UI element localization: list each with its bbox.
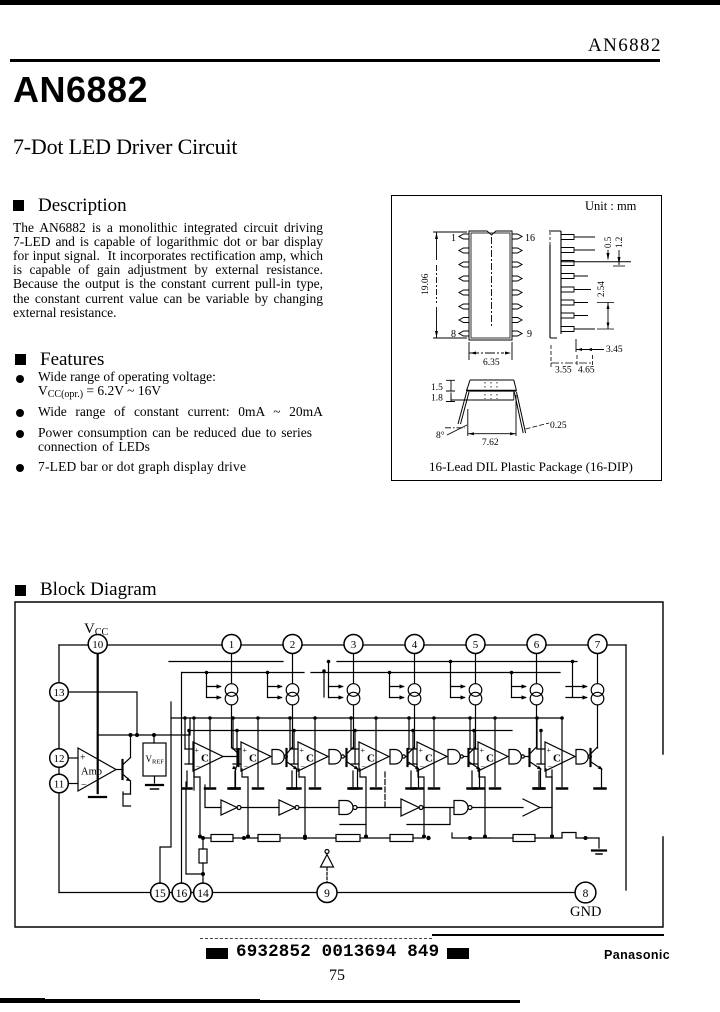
input ground stub [352,771,354,787]
mirror control arrows [207,687,221,698]
svg-text:4.65: 4.65 [578,366,595,376]
logic gate stage 7 [576,750,588,765]
top black bar [0,0,720,5]
LED driver stage 3 [288,655,362,839]
input ground stub [291,771,293,787]
divider tap wire [299,769,305,836]
resistor R4 [390,835,413,842]
ground under VREF [154,776,156,783]
svg-text:−: − [301,762,306,771]
svg-text:−: − [362,762,367,771]
svg-text:3: 3 [351,639,357,651]
svg-text:7.62: 7.62 [482,438,499,448]
Features bullets [16,375,24,383]
wire mirror to collector [536,705,538,748]
pin 16 [172,883,191,902]
wire mirror to collector [292,705,294,748]
svg-text:C: C [306,753,314,765]
wire gate to transistor [344,756,346,758]
comparator input wires [290,749,298,764]
op-amp Amp [78,748,116,791]
bias wire and ground [433,718,435,787]
output transistor Q4 [406,749,408,766]
wire bus feed [206,673,208,698]
svg-text:C: C [201,753,209,765]
LED driver stage 2 [231,655,301,839]
wire pin11 to amp - input [69,783,79,785]
wire pin12 to amp + input [69,757,79,759]
emitter ground [412,787,423,790]
header doc number AN6882 [588,35,662,57]
resistor R2 [258,835,280,842]
19.06 dimension [433,232,467,338]
divider tap wire [194,769,200,836]
inverter A4 [401,799,419,816]
comparator C1 [193,742,223,771]
wire bus feed [389,673,391,698]
svg-text:−: − [481,762,486,771]
2.54 dim [607,303,609,330]
wire pin 2 to mirror [292,655,294,684]
internal vcc rail [98,718,190,735]
pin 4 [405,635,424,654]
svg-text:C: C [425,753,433,765]
logic gate stage 4 [390,750,402,765]
emitter ground [290,787,301,790]
wire comparator to transistor [223,756,239,758]
svg-text:1: 1 [451,233,456,244]
svg-text:C: C [553,753,561,765]
wire gate to transistor [524,756,529,758]
svg-text:+: + [243,746,248,755]
pin 6 [527,635,546,654]
0.5 / 1.2 dims [561,261,631,263]
bias wire and ground [314,718,316,787]
wire mirror to collector [414,705,416,748]
emitter ground [473,787,484,790]
footer code line [206,948,228,959]
mirror control arrows [566,687,587,698]
svg-text:1: 1 [229,639,235,651]
output transistor Q1 [237,749,239,766]
divider tap wire [418,769,424,836]
wire [540,807,552,809]
svg-text:0.5: 0.5 [603,236,613,248]
inverter row wire [205,785,221,808]
wire gate to transistor [463,756,468,758]
comparator C4 [359,742,389,771]
DIP top-view body [469,231,512,340]
wire pin 6 to mirror [536,655,538,684]
bottom bar [0,998,45,1003]
resistor R14 above pin 14 [199,849,207,863]
top bus line B [182,672,560,674]
pin 5 [466,635,485,654]
wire mirror to collector [475,705,477,748]
divider tap wire [479,769,485,836]
svg-text:2.54: 2.54 [596,281,606,297]
svg-text:12: 12 [54,753,65,765]
3.45 dim [575,339,577,352]
footer rule + Panasonic [200,938,432,939]
resistor R1 [211,835,233,842]
Description heading [13,200,24,211]
svg-text:Amp: Amp [81,767,102,778]
DIP left pins [459,234,469,336]
svg-text:14: 14 [197,888,209,900]
comparator C2 [241,742,271,771]
wire bus feed [511,673,513,698]
wire jog [452,833,489,838]
svg-text:+: + [361,746,366,755]
transistor Q1 after amp [116,769,123,771]
svg-text:13: 13 [54,687,66,699]
pin 10 [88,635,107,654]
emitter ground [229,787,240,790]
stub node on bus [323,671,325,697]
wire [413,837,424,839]
comparator input wires [409,749,417,764]
current mirror M7 [591,684,604,697]
inverter A2 [279,800,295,815]
logic gate stage 2 [272,750,284,765]
nand gate A5 [454,801,468,815]
comparator C5 [417,742,447,771]
bias wire and ground [494,718,496,787]
package drawing SVG [391,195,660,479]
comparator C7 [545,742,575,771]
svg-text:6: 6 [534,639,540,651]
output transistor Q6 [528,749,530,766]
current mirror M4 [408,684,421,697]
input ground stub [186,771,188,787]
signal rail D [189,730,512,732]
comparator input wires [470,749,478,764]
pin 3 [344,635,363,654]
junction dots on vcc rail [135,733,139,737]
pin 2 [283,635,302,654]
input ground stub [234,771,236,787]
svg-text:4: 4 [412,639,418,651]
pin 8 [575,882,596,903]
input ground stub [410,771,412,787]
pin 1 [222,635,241,654]
pin 11 [50,774,69,793]
svg-text:−: − [196,762,201,771]
svg-text:0.25: 0.25 [550,421,567,431]
wire stage4 to inverter A4 [384,772,386,808]
pin number labels [451,233,535,340]
subtitle [13,134,237,160]
resistor bracket under Q1 [123,792,131,806]
logic gate stage 3 [329,750,341,765]
logic gate stage 6 [509,750,521,765]
wire bus feed [328,662,330,698]
current mirror M3 [347,684,360,697]
DIP right pins [512,234,522,336]
wire gate to transistor [405,756,407,758]
8 deg leader [445,427,465,429]
Block Diagram heading [15,585,26,596]
LED driver stage 6 [468,655,545,839]
svg-text:2: 2 [290,639,296,651]
emitter ground [351,787,362,790]
svg-text:19.06: 19.06 [421,273,431,295]
svg-text:+: + [480,746,485,755]
wire pin 5 to mirror [475,655,477,684]
resistor R3 [336,835,360,842]
pin 13 [50,683,69,702]
step wires [340,808,450,825]
svg-text:3.45: 3.45 [606,345,623,355]
svg-text:1.2: 1.2 [614,237,624,248]
wire pin10 vcc column [97,655,99,794]
bias wire and ground [257,718,259,787]
bias wire and ground [209,718,211,787]
resistor R5 [513,835,535,842]
emitter ground [595,787,606,790]
svg-text:GND: GND [570,904,601,920]
package caption [429,459,633,475]
top supply bus wire [59,644,626,646]
nand gate A3 [339,801,353,815]
pin 14 [194,883,213,902]
svg-text:VREF: VREF [146,754,165,766]
comparator input wires [351,749,359,764]
wire to chain [551,770,553,837]
wire [280,837,336,839]
comparator input wires [233,749,241,764]
block diagram [0,595,720,935]
voltage reference VREF box [153,735,155,743]
wire [423,807,454,809]
left long wires to bottom pins [160,702,171,883]
page number [329,967,345,985]
comparator C6 [478,742,508,771]
legs [458,392,469,424]
current mirror M1 [225,684,238,697]
wire [357,807,401,809]
buffer A6 [523,799,540,816]
svg-text:+: + [547,746,552,755]
wire pin 4 to mirror [414,655,416,684]
left rail wire from pin 10 down through 13,12,11 [58,645,60,893]
wire [203,837,211,839]
ground at chain end [598,838,600,848]
wire [535,837,552,839]
wire [241,807,279,809]
wire mirror to collector [353,705,355,748]
wire pin7 output drop [625,645,627,890]
pin 12 [50,749,69,768]
inverter A1 [221,800,237,815]
resistor chain [201,836,205,840]
logic gate stage 5 [448,750,460,765]
bias wire and ground [561,718,563,787]
side view pins [561,235,595,332]
current mirror M2 [286,684,299,697]
svg-text:16: 16 [525,233,535,244]
svg-text:8: 8 [583,888,589,900]
DIP centerline [491,237,493,327]
wire bus feed [450,662,452,698]
divider tap wire [546,769,552,836]
svg-text:11: 11 [54,779,65,791]
package outline box [391,195,662,481]
big title AN6882 [13,69,148,111]
mirror control arrows [329,687,343,698]
current mirror M6 [530,684,543,697]
comparator C3 [298,742,328,771]
current mirror M5 [469,684,482,697]
pin 15 [151,883,170,902]
ground under vcc column [89,796,106,798]
output transistor Q5 [467,749,469,766]
wire [472,807,523,809]
svg-text:16: 16 [176,888,188,900]
comparator input wires [185,749,193,764]
svg-text:+: + [419,746,424,755]
svg-text:C: C [486,753,494,765]
signal rail C [171,717,560,719]
svg-text:1.5: 1.5 [431,383,443,393]
output transistor Q7 [589,749,591,766]
bottom ground wire [59,892,575,894]
divider tap wire [242,769,248,836]
bias wire and ground [375,718,377,787]
svg-text:1.8: 1.8 [431,394,443,404]
svg-text:−: − [420,762,425,771]
reference symbol above pin 9 [325,850,329,854]
svg-text:10: 10 [92,639,104,651]
comparator input wires [537,749,545,764]
LED driver stage 5 [407,655,484,839]
Description body [13,221,323,320]
pin 9 [317,883,337,903]
top bus line A [169,661,577,663]
wire [489,837,513,839]
wire bus feed [572,662,574,698]
emitter ground [534,787,545,790]
input ground stub [538,771,540,787]
svg-text:+: + [300,746,305,755]
mirror control arrows [512,687,526,698]
wire mirror to collector [231,705,233,748]
wire bus feed [267,673,269,698]
wire pin13 to vref node [69,692,138,735]
svg-text:15: 15 [154,888,166,900]
svg-text:−: − [81,780,87,791]
wire [299,807,339,809]
svg-text:9: 9 [324,888,330,900]
svg-text:+: + [195,746,200,755]
input ground stub [471,771,473,787]
svg-text:C: C [367,753,375,765]
output transistor Q2 [285,749,287,766]
mirror control arrows [390,687,404,698]
wire [360,837,390,839]
mirror control arrows [451,687,465,698]
svg-text:6.35: 6.35 [483,358,500,368]
wire [233,837,258,839]
bottom profile view [451,380,517,400]
LED driver stage 7 [535,655,606,839]
svg-text:9: 9 [527,329,532,340]
3.55 / 4.65 dims [551,345,593,367]
svg-text:7: 7 [595,639,601,651]
wire mirror to collector [597,705,599,748]
LED driver stage 4 [349,655,423,839]
outer frame of block diagram [15,602,663,927]
svg-text:8°: 8° [436,430,445,441]
svg-text:+: + [80,753,86,764]
wire pin 7 to mirror [597,655,599,684]
mirror control arrows [268,687,282,698]
output transistor Q3 [345,749,347,766]
0.25 leader [526,423,549,429]
wire pin 1 to mirror [231,655,233,684]
header rule [10,59,660,62]
divider tap wire [360,769,366,836]
side view body [549,231,561,338]
svg-text:−: − [244,762,249,771]
Features heading [15,354,26,365]
6.35 dimension [469,342,512,360]
svg-text:C: C [249,753,257,765]
LED driver stage 1 [183,655,240,839]
wire pin 3 to mirror [353,655,355,684]
pin 7 [588,635,607,654]
svg-text:3.55: 3.55 [555,366,572,376]
1.5 / 1.8 brackets [446,380,455,401]
svg-text:5: 5 [473,639,479,651]
7.62 dim [468,395,516,436]
wire jog right [552,833,599,839]
